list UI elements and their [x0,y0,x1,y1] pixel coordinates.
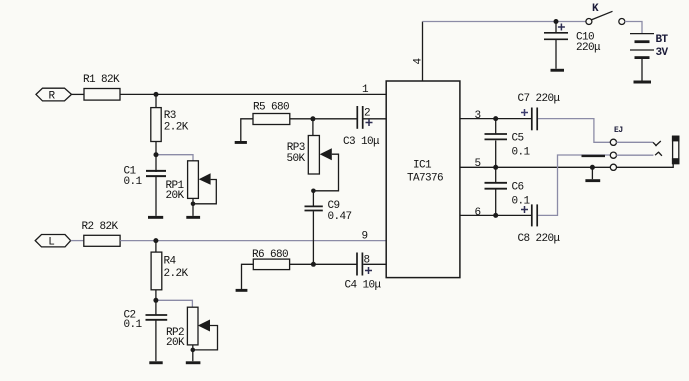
svg-text:R5 680: R5 680 [253,102,289,114]
svg-text:R1 82K: R1 82K [83,74,120,86]
svg-text:2.2K: 2.2K [164,121,189,133]
svg-text:20K: 20K [166,190,185,202]
svg-text:0.1: 0.1 [124,319,143,331]
svg-text:EJ: EJ [614,126,623,135]
svg-text:R: R [49,90,56,102]
svg-text:8: 8 [364,254,370,266]
svg-text:C5: C5 [512,133,524,145]
svg-text:0.1: 0.1 [512,196,531,208]
svg-text:50K: 50K [287,153,306,165]
svg-text:2: 2 [364,108,370,120]
svg-text:5: 5 [475,158,481,170]
svg-text:6: 6 [475,207,481,219]
svg-text:0.47: 0.47 [328,211,352,223]
svg-text:R2 82K: R2 82K [82,221,119,233]
svg-text:R4: R4 [164,255,177,267]
svg-text:C4 10μ: C4 10μ [345,280,382,292]
svg-text:9: 9 [362,231,368,243]
svg-text:L: L [48,237,54,249]
svg-text:R3: R3 [164,110,176,122]
svg-text:IC1: IC1 [413,159,432,171]
svg-text:20K: 20K [166,337,185,349]
svg-text:0.1: 0.1 [512,147,531,159]
svg-text:C9: C9 [328,200,340,212]
svg-text:3: 3 [475,110,481,122]
svg-text:4: 4 [413,58,425,65]
svg-text:2.2K: 2.2K [164,268,189,280]
svg-text:BT: BT [656,34,669,46]
svg-text:0.1: 0.1 [124,176,143,188]
svg-text:K: K [592,3,599,15]
svg-text:R6 680: R6 680 [252,249,288,261]
svg-text:C7 220μ: C7 220μ [518,93,561,105]
svg-text:TA7376: TA7376 [407,172,443,184]
svg-text:C6: C6 [512,182,524,194]
svg-text:C3 10μ: C3 10μ [343,136,380,148]
svg-text:220μ: 220μ [576,42,601,54]
svg-text:1: 1 [362,84,369,96]
svg-text:3V: 3V [656,47,669,59]
svg-text:RP3: RP3 [287,142,305,154]
svg-text:C8 220μ: C8 220μ [518,233,561,245]
